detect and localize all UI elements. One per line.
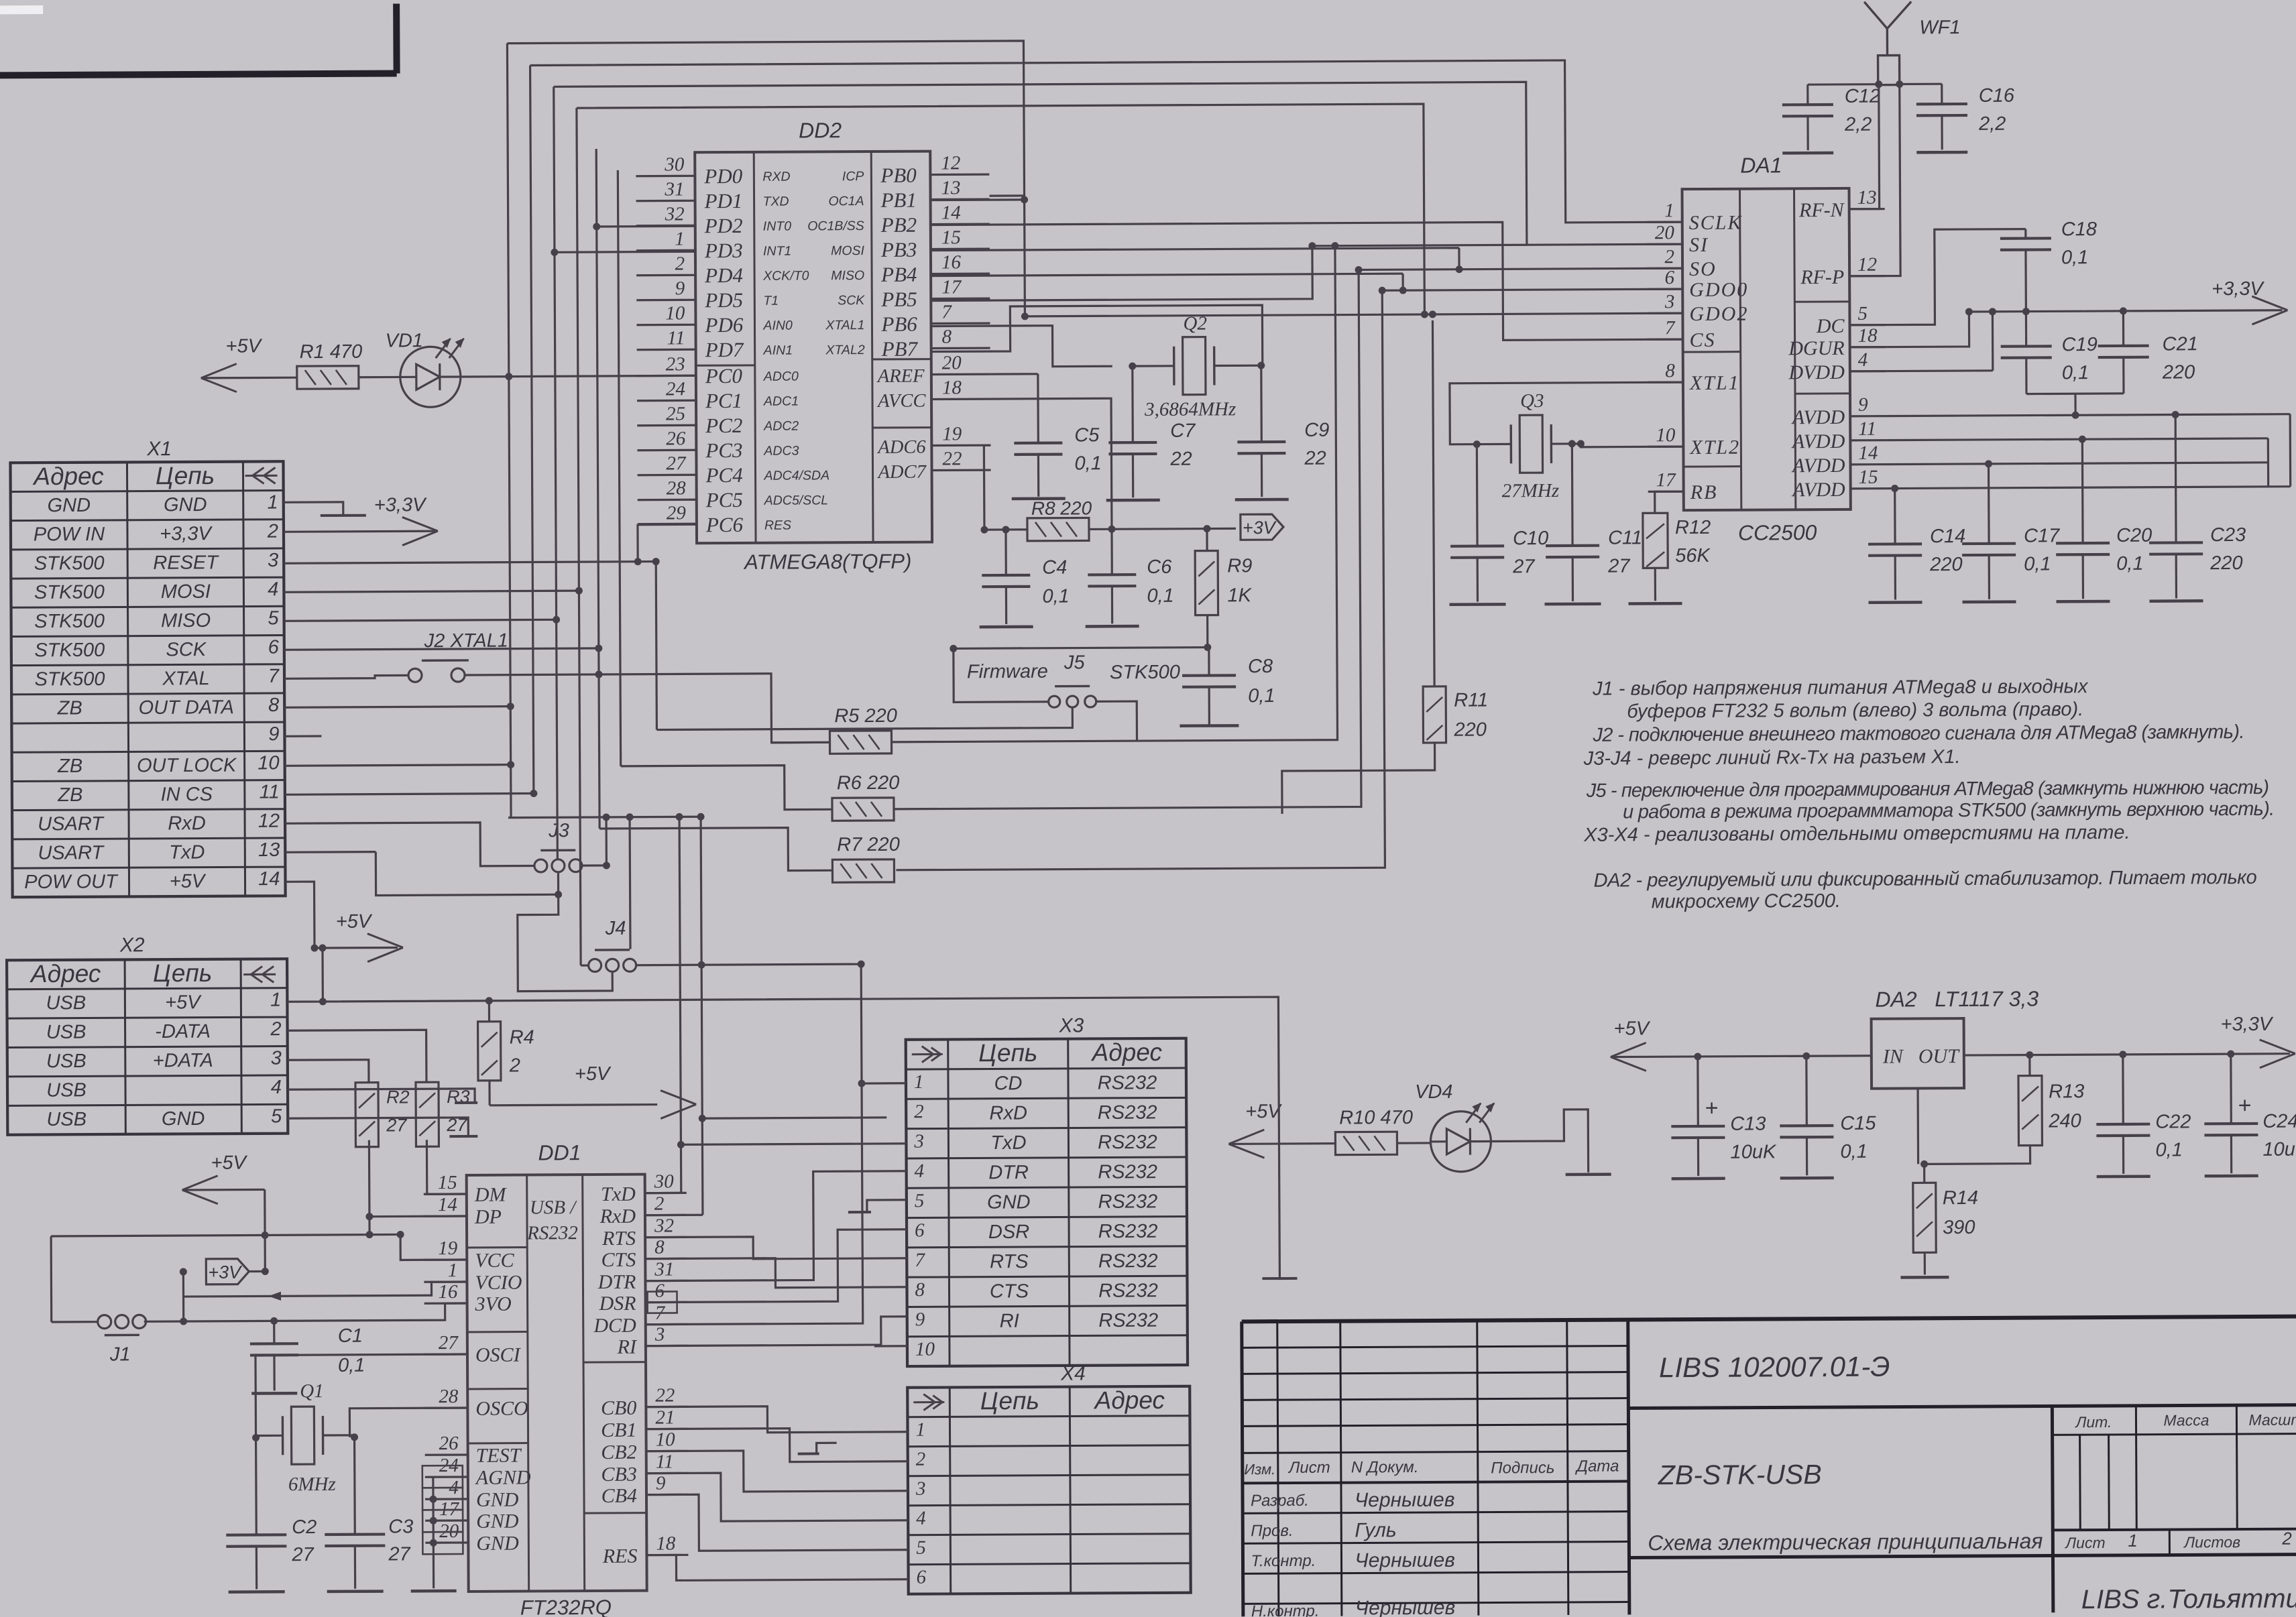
svg-text:Q1: Q1: [300, 1380, 324, 1402]
svg-text:R11: R11: [1454, 690, 1488, 711]
svg-text:56K: 56K: [1675, 545, 1711, 566]
svg-text:буферов FT232 5 вольт (влево): буферов FT232 5 вольт (влево) 3 вольта (…: [1627, 699, 2083, 722]
vertical 939 from 1215 run to J4 bar: [628, 817, 631, 949]
svg-text:USART: USART: [38, 813, 105, 835]
capacitor C18 0,1: [2000, 237, 2051, 240]
jumper J3: [534, 859, 547, 872]
svg-text:X3-X4 - реализованы отдельными: X3-X4 - реализованы отдельными отверстия…: [1583, 822, 2130, 846]
svg-text:ADC6: ADC6: [876, 437, 926, 458]
wire DC pin5 to C18 loop: [1849, 229, 2026, 325]
wire R7 row: [893, 290, 1385, 870]
svg-text:Чернышев: Чернышев: [1355, 1597, 1456, 1617]
svg-text:1: 1: [675, 228, 685, 249]
wire R9 top: [1206, 529, 1208, 551]
wire R8 row: [984, 528, 1027, 531]
vertical RESET to J5 row: [656, 562, 656, 730]
wire OSCO row to Q1 right: [349, 1408, 467, 1437]
svg-text:27MHz: 27MHz: [1502, 480, 1560, 501]
resistor R13 240: [2018, 1075, 2043, 1145]
svg-text:Чернышев: Чернышев: [1355, 1489, 1455, 1512]
DD1 pin 16 3VO: [424, 1302, 467, 1305]
svg-text:2: 2: [1664, 246, 1674, 267]
DD2 pin 1 PD3: [636, 249, 695, 252]
svg-text:RF-P: RF-P: [1800, 266, 1844, 288]
svg-text:21: 21: [655, 1406, 675, 1428]
capacitor C17 0,1: [1962, 542, 2016, 546]
wire J5 middle pin down: [656, 709, 1072, 730]
svg-text:DTR: DTR: [597, 1271, 636, 1293]
svg-text:C17: C17: [2024, 525, 2061, 546]
wire X3 CD row stub: [862, 1082, 906, 1085]
svg-text:0,1: 0,1: [1042, 586, 1069, 607]
svg-text:Пров.: Пров.: [1251, 1522, 1293, 1540]
svg-text:C23: C23: [2210, 524, 2246, 546]
wire +3V flag to VCIO: [249, 1270, 265, 1272]
wire XTL2 from Q3: [1581, 443, 1683, 447]
wire PB7 row to Q2 right: [931, 305, 1262, 367]
wire GDO2 row: [1424, 313, 1682, 314]
svg-text:4: 4: [916, 1508, 926, 1529]
svg-text:и работа в режима программмато: и работа в режима программматора STK500 …: [1623, 798, 2275, 823]
svg-text:27: 27: [291, 1544, 314, 1565]
wire RB pin to R12: [1655, 491, 1684, 513]
svg-text:RxD: RxD: [599, 1205, 636, 1227]
svg-text:ICP: ICP: [842, 169, 864, 184]
svg-text:Дата: Дата: [1574, 1457, 1619, 1476]
svg-text:CS: CS: [1690, 329, 1716, 351]
svg-text:MOSI: MOSI: [161, 581, 211, 603]
resistor R1 470: [297, 366, 359, 389]
svg-text:3: 3: [1664, 291, 1675, 312]
wire Q3 right: [1551, 442, 1581, 444]
wire DD1 CTS to X3 CTS: [645, 1258, 907, 1289]
svg-text:AVDD: AVDD: [1791, 479, 1845, 501]
power flag +5V above X2: [287, 948, 323, 1002]
wire AREF row to C5: [990, 373, 1038, 375]
svg-text:STK500: STK500: [1110, 662, 1180, 684]
resistor R14 390: [1913, 1183, 1937, 1252]
wire TEST chain grounds: [432, 1477, 435, 1588]
DD1 pin 10 CB2: [646, 1450, 688, 1453]
svg-text:RI: RI: [1000, 1311, 1019, 1332]
svg-text:ADC7: ADC7: [876, 462, 927, 483]
wire DD1 DCD to X3 CD: [644, 964, 863, 1325]
svg-text:C7: C7: [1170, 420, 1196, 442]
svg-text:SCK: SCK: [166, 639, 207, 660]
svg-text:0,1: 0,1: [2155, 1139, 2182, 1160]
DD1 pin 8 CTS: [645, 1258, 687, 1260]
wire PC6 down to RESET row: [636, 524, 638, 562]
svg-text:ZB-STK-USB: ZB-STK-USB: [1658, 1459, 1822, 1490]
svg-text:PB1: PB1: [880, 188, 917, 212]
svg-text:ZB: ZB: [57, 756, 82, 777]
wire X1 pin5 MISO row: [284, 619, 557, 621]
svg-text:PB2: PB2: [880, 213, 917, 237]
svg-text:+5V: +5V: [1245, 1101, 1282, 1122]
svg-text:RES: RES: [764, 518, 791, 533]
svg-text:C24: C24: [2262, 1111, 2296, 1132]
svg-text:2: 2: [2281, 1529, 2292, 1549]
svg-text:ZB: ZB: [57, 697, 82, 719]
svg-text:1: 1: [914, 1071, 924, 1093]
wire SO row: [1359, 268, 1682, 269]
svg-text:C13: C13: [1730, 1114, 1766, 1135]
wire C18 bottom to rail: [2025, 285, 2027, 312]
jumper J4: [589, 959, 601, 971]
svg-text:PD3: PD3: [704, 239, 743, 262]
DD2 pin 29 PC6: [638, 524, 697, 526]
svg-text:PB4: PB4: [880, 263, 917, 286]
svg-text:AIN1: AIN1: [763, 343, 793, 358]
DD2 pin 14 PB2: [931, 223, 990, 226]
svg-text:PB5: PB5: [880, 288, 917, 311]
svg-text:19: 19: [438, 1238, 458, 1259]
svg-text:USB /: USB /: [530, 1197, 578, 1218]
svg-text:RXD: RXD: [762, 170, 790, 184]
svg-text:220: 220: [2209, 552, 2243, 574]
svg-text:8: 8: [654, 1237, 665, 1258]
svg-text:Q3: Q3: [1520, 390, 1544, 412]
svg-text:17: 17: [941, 276, 962, 298]
svg-text:Масса: Масса: [2163, 1411, 2209, 1429]
wire antenna feed split right: [1900, 83, 1942, 86]
capacitor C9 22: [1237, 440, 1285, 444]
DD1 pin 15 DM: [424, 1193, 467, 1195]
wire R4 bottom to +5V arrow line: [488, 1081, 490, 1105]
svg-text:9: 9: [675, 278, 685, 299]
svg-text:26: 26: [439, 1433, 459, 1454]
svg-text:3: 3: [271, 1048, 282, 1069]
svg-text:3: 3: [268, 550, 278, 571]
svg-text:2: 2: [509, 1055, 520, 1077]
svg-text:ADC5/SCL: ADC5/SCL: [764, 493, 828, 507]
svg-text:микросхему CC2500.: микросхему CC2500.: [1652, 890, 1841, 912]
svg-text:R13: R13: [2049, 1081, 2084, 1102]
svg-text:+5V: +5V: [170, 871, 207, 892]
capacitor C23 220: [2149, 541, 2203, 544]
DA1 pin 15 AVDD: [1851, 487, 1886, 489]
svg-text:27: 27: [439, 1332, 459, 1354]
wire DD1 RES to X4 row6: [646, 1554, 908, 1581]
svg-text:32: 32: [665, 203, 685, 225]
svg-text:OUT: OUT: [1918, 1045, 1960, 1067]
svg-text:Цепь: Цепь: [978, 1039, 1037, 1067]
wire DD1 TxD pin to vertical: [645, 1192, 681, 1194]
wire VCIO row: [183, 1282, 467, 1297]
svg-text:X2: X2: [119, 934, 145, 956]
svg-text:Firmware: Firmware: [967, 661, 1048, 683]
DD1 pin 7 DCD: [646, 1323, 687, 1326]
jumper J2 XTAL1: [408, 668, 422, 682]
resistor R9 1K: [1195, 550, 1218, 615]
svg-text:7: 7: [915, 1250, 925, 1271]
svg-text:USB: USB: [46, 1051, 87, 1072]
svg-text:12: 12: [941, 152, 960, 174]
svg-text:R6 220: R6 220: [837, 772, 900, 794]
svg-text:14: 14: [438, 1194, 457, 1215]
svg-text:RTS: RTS: [990, 1251, 1029, 1272]
svg-text:0,1: 0,1: [338, 1355, 365, 1376]
wire DD1 CB4 to X4 row5: [646, 1494, 908, 1551]
svg-text:R5 220: R5 220: [834, 705, 897, 727]
svg-text:ZB: ZB: [57, 784, 82, 806]
svg-text:CB1: CB1: [601, 1419, 637, 1441]
wire Q1 left: [256, 1435, 283, 1437]
svg-text:R1 470: R1 470: [300, 341, 363, 363]
wire R11 top: [1432, 320, 1434, 686]
DD2 pin 27 PC4: [638, 474, 697, 477]
wire join down to AVDD9: [2074, 394, 2076, 415]
svg-text:CTS: CTS: [990, 1280, 1029, 1302]
svg-text:SO: SO: [1689, 258, 1717, 280]
title block sheet numbers: [2169, 1530, 2171, 1555]
svg-text:5: 5: [916, 1537, 926, 1559]
wire J4 right: [636, 964, 861, 965]
svg-text:PC4: PC4: [705, 463, 742, 487]
svg-text:C15: C15: [1840, 1113, 1876, 1134]
svg-text:+3V: +3V: [1243, 518, 1277, 538]
svg-text:J5 - переключение для программ: J5 - переключение для программирования A…: [1586, 777, 2269, 802]
svg-text:10: 10: [915, 1339, 935, 1360]
svg-text:DGUR: DGUR: [1788, 337, 1844, 359]
svg-text:CB2: CB2: [601, 1441, 637, 1463]
svg-text:22: 22: [1304, 448, 1326, 469]
svg-text:STK500: STK500: [34, 611, 105, 633]
DA1 pin 5 DC: [1849, 324, 1885, 326]
svg-text:ADC3: ADC3: [763, 444, 799, 459]
power arrow +5V at R10: [1228, 1142, 1335, 1145]
svg-text:+3,3V: +3,3V: [2221, 1014, 2274, 1035]
resistor R7 220: [832, 859, 894, 882]
wire TxD to X3 row3: [681, 1144, 906, 1145]
LED VD1: [400, 347, 461, 407]
svg-text:14: 14: [258, 868, 280, 890]
DA1 pin 6 GDO0: [1647, 288, 1682, 290]
wire X1 pin12 RxD row: [285, 822, 534, 867]
svg-text:DSR: DSR: [988, 1221, 1029, 1243]
svg-text:PD1: PD1: [703, 189, 742, 213]
svg-text:14: 14: [1858, 442, 1878, 464]
svg-text:PC6: PC6: [705, 513, 744, 536]
svg-text:XCK/T0: XCK/T0: [762, 268, 809, 283]
svg-text:10uK: 10uK: [2262, 1139, 2296, 1160]
wire R4 top to +5V rail: [488, 1001, 490, 1022]
svg-text:18: 18: [656, 1533, 676, 1554]
svg-text:C6: C6: [1147, 556, 1172, 578]
svg-text:Лист: Лист: [2064, 1534, 2105, 1551]
svg-text:0,1: 0,1: [1147, 585, 1173, 607]
svg-text:13: 13: [1857, 187, 1876, 208]
svg-text:1: 1: [448, 1260, 458, 1281]
svg-text:0,1: 0,1: [1074, 453, 1101, 474]
top loop wire PB1: [507, 41, 1025, 319]
svg-text:0,1: 0,1: [2062, 362, 2089, 383]
wire X1 pin9 row: [284, 735, 321, 737]
svg-text:+3,3V: +3,3V: [2212, 278, 2264, 300]
svg-text:J2 - подключение внешнего такт: J2 - подключение внешнего тактового сигн…: [1592, 721, 2244, 746]
wire X1 pin4 MOSI row: [284, 591, 579, 592]
svg-text:2: 2: [914, 1101, 924, 1122]
svg-text:AREF: AREF: [876, 366, 925, 387]
svg-text:C9: C9: [1304, 420, 1329, 441]
DD2 pin 18 AVCC: [931, 398, 990, 401]
svg-text:Адрес: Адрес: [1090, 1038, 1162, 1067]
svg-text:1K: 1K: [1227, 585, 1252, 606]
antenna WF1: [1886, 29, 1889, 56]
capacitor C4 0,1: [982, 574, 1030, 577]
svg-text:VD4: VD4: [1415, 1081, 1453, 1103]
svg-text:ADC0: ADC0: [763, 369, 799, 384]
svg-text:+5V: +5V: [165, 992, 202, 1013]
svg-text:Адрес: Адрес: [32, 463, 104, 491]
svg-text:32: 32: [654, 1215, 674, 1236]
DD1 pin 26 TEST: [425, 1453, 468, 1456]
svg-text:+5V: +5V: [336, 911, 373, 933]
svg-text:PD6: PD6: [704, 313, 743, 337]
capacitor C10 27: [1450, 544, 1504, 548]
svg-text:14: 14: [941, 202, 961, 223]
svg-text:CTS: CTS: [601, 1249, 636, 1271]
DD2 pin 26 PC3: [637, 449, 696, 452]
resistor R3 27: [416, 1082, 439, 1146]
DD1 pin 1 VCIO: [424, 1280, 467, 1283]
svg-text:18: 18: [1857, 325, 1878, 347]
capacitor C16 2,2: [1916, 103, 1967, 106]
svg-text:29: 29: [667, 502, 687, 524]
connector X4 table: [907, 1386, 1191, 1594]
capacitor C2 27: [226, 1533, 286, 1537]
vertical 1013 TxD: [679, 817, 681, 1193]
DD1 pin 2 RxD: [645, 1214, 687, 1217]
wire DD1 RxD pin to vertical: [645, 1214, 703, 1217]
wire RF-N pin13 to antenna: [1849, 84, 1880, 209]
svg-text:CB4: CB4: [601, 1485, 638, 1507]
svg-text:11: 11: [1858, 418, 1876, 440]
svg-text:OC1A: OC1A: [828, 194, 864, 208]
svg-text:RS232: RS232: [526, 1222, 578, 1244]
svg-text:C2: C2: [292, 1516, 317, 1538]
wire vertical 270 flag to J1 row: [182, 1272, 185, 1321]
svg-text:C22: C22: [2155, 1111, 2191, 1132]
svg-text:22: 22: [655, 1384, 675, 1406]
svg-text:J3-J4 - реверс линий Rx-Tx на: J3-J4 - реверс линий Rx-Tx на разъем X1.: [1583, 746, 1961, 770]
DD1 pin 18 RES: [646, 1554, 688, 1557]
wire +5V down to loop: [264, 1189, 266, 1235]
svg-text:DM: DM: [474, 1184, 508, 1206]
DD1 pin 9 CB4: [646, 1494, 688, 1496]
svg-text:DSR: DSR: [599, 1293, 636, 1315]
crystal Q2 3,6864MHz: [1183, 337, 1206, 395]
wire R6 row: [892, 269, 1361, 808]
IC DD1 FT232RQ: [467, 1175, 647, 1592]
svg-text:GND: GND: [476, 1489, 519, 1511]
wire +33 rail top right: [1969, 310, 2084, 313]
svg-text:X1: X1: [146, 438, 172, 460]
wire DVDD pin4 row: [1850, 371, 1993, 371]
wire J2 right to mesh: [465, 673, 599, 676]
svg-text:9: 9: [268, 723, 279, 745]
title block lit massa masshtab: [2135, 1406, 2138, 1530]
svg-text:ATMEGA8(TQFP): ATMEGA8(TQFP): [743, 550, 911, 574]
wire AVDD 9 row: [1886, 415, 2175, 416]
svg-text:+3,3V: +3,3V: [160, 523, 213, 544]
DD2 pin 22 ADC7: [932, 469, 991, 472]
svg-text:2: 2: [270, 1018, 281, 1040]
svg-text:8: 8: [915, 1279, 925, 1301]
DD1 pin 11 CB3: [646, 1472, 688, 1475]
svg-text:+3,3V: +3,3V: [374, 494, 427, 516]
svg-text:10: 10: [656, 1429, 676, 1450]
resistor R12 56K: [1643, 513, 1668, 568]
DD2 pin 19 ADC6: [931, 444, 990, 447]
resistor R5 220: [829, 731, 891, 754]
svg-text:10: 10: [257, 752, 279, 774]
svg-text:DCD: DCD: [593, 1315, 636, 1337]
svg-text:16: 16: [941, 251, 962, 273]
svg-text:DD2: DD2: [799, 118, 842, 142]
svg-text:6: 6: [915, 1219, 925, 1241]
wire AVDD 14 row: [1886, 463, 1989, 465]
svg-text:J5: J5: [1064, 652, 1086, 673]
svg-text:R12: R12: [1675, 517, 1711, 538]
DD1 pin 3 RI: [646, 1345, 687, 1347]
DA1 pin 18 DGUR: [1850, 346, 1886, 348]
svg-text:7: 7: [268, 666, 280, 687]
DD1 pin 4 GND: [425, 1498, 468, 1500]
svg-text:1: 1: [2128, 1531, 2138, 1551]
DA1 pin 3 GDO2: [1647, 312, 1682, 314]
svg-text:15: 15: [941, 227, 961, 248]
wire DD1 RTS pin to X3 RTS: [645, 1236, 907, 1260]
svg-text:STK500: STK500: [34, 581, 105, 603]
wire R1 to VD1: [359, 376, 400, 379]
wire J1 left loop: [50, 1236, 52, 1322]
power flag +5V near J4: [490, 1105, 657, 1105]
bus junction dots: [593, 223, 600, 230]
svg-text:3VO: 3VO: [475, 1293, 512, 1315]
DA1 pin 10 XTL2: [1648, 445, 1683, 447]
power flag +3,3V top right: [2084, 310, 2282, 311]
svg-text:GND: GND: [987, 1191, 1031, 1213]
svg-text:MISO: MISO: [831, 268, 864, 283]
svg-text:CD: CD: [994, 1073, 1022, 1094]
svg-text:C18: C18: [2061, 219, 2097, 240]
DD2 pin 24 PC1: [637, 400, 696, 402]
wire X1 pin3 RESET row: [284, 562, 656, 564]
wire R13 top: [2028, 1055, 2030, 1076]
svg-text:RxD: RxD: [989, 1102, 1027, 1124]
capacitor C13 10uK electrolytic: [1671, 1125, 1725, 1128]
svg-text:GND: GND: [476, 1533, 519, 1555]
svg-text:27: 27: [666, 453, 687, 474]
svg-text:USB: USB: [46, 1022, 87, 1043]
svg-text:X4: X4: [1060, 1362, 1086, 1384]
wire DD1 RI to X3 RI: [646, 1317, 907, 1346]
title block frame: [1242, 1317, 2296, 1322]
svg-text:13: 13: [941, 177, 960, 198]
svg-text:5: 5: [915, 1190, 925, 1211]
svg-text:Гуль: Гуль: [1355, 1519, 1397, 1541]
svg-text:VD1: VD1: [385, 330, 423, 351]
wire J4 middle return to J3 middle: [517, 873, 612, 992]
svg-text:6: 6: [268, 637, 280, 658]
svg-text:10: 10: [665, 302, 685, 324]
wire J4 left from bus: [581, 964, 589, 966]
svg-text:GND: GND: [47, 495, 91, 516]
svg-text:PB3: PB3: [880, 238, 917, 261]
wire VD1 to DD2 PC0 row: [461, 375, 696, 377]
svg-text:1: 1: [1664, 200, 1674, 221]
